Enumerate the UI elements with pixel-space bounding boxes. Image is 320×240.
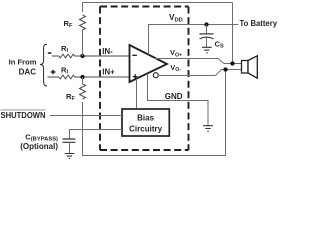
svg-text:Circuitry: Circuitry [129,125,162,134]
minus sign at input [48,52,52,54]
ground (below CS) [202,47,212,53]
svg-text:CS: CS [215,40,224,50]
resistor Ri (bottom, non-inverting input) [59,75,75,79]
resistor Ri (top, inverting input) [59,54,75,58]
brace for DAC inputs [40,44,47,86]
wire: VO- output [158,70,241,76]
capacitor C(BYPASS) plates [63,139,76,142]
wire: BYPASS [70,130,123,140]
capacitor CS wires [206,25,208,47]
wire: GND [148,73,209,125]
ground (bypass cap) [65,154,75,159]
svg-text:DAC: DAC [19,68,37,77]
bias circuitry box [122,109,169,136]
svg-text:IN+: IN+ [102,68,115,77]
wire: feedback top drop to VO+ node [232,3,234,64]
op-amp inverting output bubble [153,73,158,78]
wire: VO+ output [154,59,242,64]
svg-text:Bias: Bias [137,114,154,123]
wire: feedback dropper from IN+ node [83,70,226,156]
svg-text:RF: RF [66,92,75,102]
plus sign at input [51,70,56,75]
node: IN- junction dot [80,54,84,58]
dashed IC boundary box [100,7,189,151]
node: VDD junction dot [204,22,208,26]
svg-text:RF: RF [64,19,73,29]
capacitor CS plates [200,33,214,35]
svg-text:To Battery: To Battery [240,19,278,28]
node: VO+ feedback junction dot [230,61,234,65]
speaker driver rect [242,61,249,74]
overbar [1,109,46,111]
svg-text:SHUTDOWN: SHUTDOWN [1,110,46,120]
svg-text:IN-: IN- [102,47,113,56]
resistor RF (bottom feedback) [80,84,86,99]
op-amp plus marker [133,74,138,79]
svg-text:(Optional): (Optional) [20,142,58,151]
wire: IN+ input row [48,76,130,78]
speaker cone [248,56,257,78]
svg-text:VDD: VDD [169,13,183,24]
wire: feedback riser from IN- node [83,3,233,57]
resistor RF (top feedback) [80,15,86,30]
wire: SHUTDOWN [50,115,122,117]
wire: VDD supply [149,25,239,55]
wire: IN- input row [52,55,130,57]
svg-text:RI: RI [61,66,68,76]
node: VO- feedback junction dot [223,67,227,71]
svg-text:VO+: VO+ [170,48,182,58]
wire: bypass cap to ground [69,142,71,153]
svg-text:In From: In From [9,58,37,67]
svg-text:RI: RI [61,44,68,54]
ground (GND pin) [203,126,213,132]
node: IN+ junction dot [80,75,84,79]
op-amp minus marker [132,54,137,56]
wire: bias box riser [136,79,138,109]
op-amp U1 [130,45,168,82]
svg-text:VO-: VO- [170,63,181,73]
svg-text:GND: GND [165,92,183,101]
